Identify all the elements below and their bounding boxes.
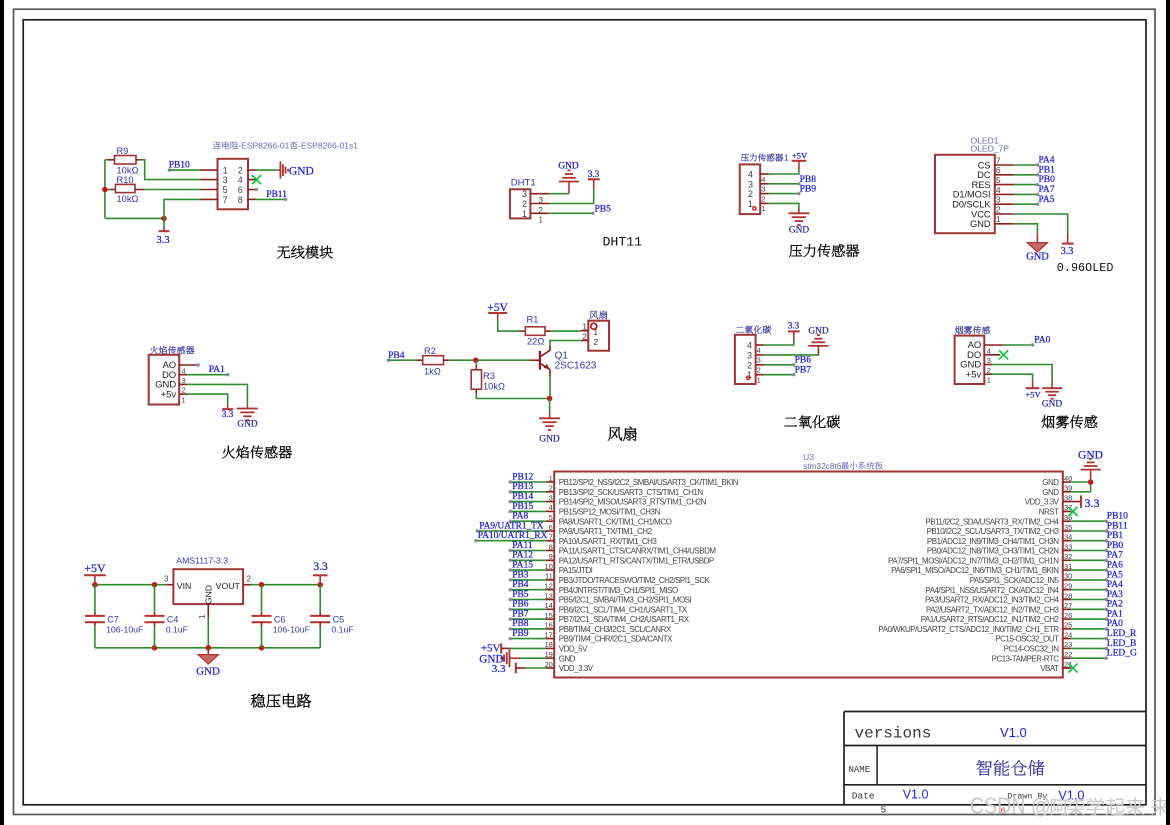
svg-text:PB11: PB11 xyxy=(266,190,287,200)
svg-text:3: 3 xyxy=(747,350,752,360)
pin +5v wire xyxy=(984,373,992,375)
svg-text:3.3: 3.3 xyxy=(222,410,234,420)
svg-text:2: 2 xyxy=(996,204,1001,214)
svg-text:GND: GND xyxy=(808,327,828,337)
wire VCC to 3.3 xyxy=(1014,214,1068,234)
wire net LED_B xyxy=(1071,647,1106,649)
svg-text:PA2: PA2 xyxy=(1107,600,1123,610)
svg-text:PA6/SPI1_MISO/ADC12_IN6/TIM3_C: PA6/SPI1_MISO/ADC12_IN6/TIM3_CH1/TIM1_BK… xyxy=(891,566,1059,575)
svg-text:R9: R9 xyxy=(117,146,129,156)
svg-text:1: 1 xyxy=(987,376,991,385)
svg-text:PB0/ADC12_IN8/TIM3_CH3/TIM1_CH: PB0/ADC12_IN8/TIM3_CH3/TIM1_CH2N xyxy=(927,547,1059,556)
svg-text:PB0: PB0 xyxy=(1107,541,1124,551)
svg-text:OLED_7P: OLED_7P xyxy=(971,144,1010,154)
ground GND wireless xyxy=(277,162,288,179)
svg-text:-ESP8266-01s1: -ESP8266-01s1 xyxy=(298,141,358,151)
wire pin3 PB8 xyxy=(769,183,799,185)
svg-text:PB6/I2C1_SCL/TIM4_CH1/USART1_T: PB6/I2C1_SCL/TIM4_CH1/USART1_TX xyxy=(559,605,688,614)
svg-text:PA15: PA15 xyxy=(512,561,533,571)
svg-text:PA3/USART2_RX/ADC12_IN3/TIM2_C: PA3/USART2_RX/ADC12_IN3/TIM2_CH4 xyxy=(925,596,1060,605)
wire +5V to pin4 xyxy=(769,170,799,175)
pin8 wire to PB11 xyxy=(248,198,256,200)
left black band xyxy=(0,0,4,825)
wire +5V to R1 xyxy=(498,320,520,332)
svg-text:4: 4 xyxy=(761,175,765,184)
wire bottom rail xyxy=(105,217,164,219)
wire net PB3 xyxy=(510,579,545,581)
svg-text:PA8: PA8 xyxy=(512,512,528,522)
wire top rail left xyxy=(95,584,167,586)
svg-text:VIN: VIN xyxy=(177,581,191,591)
svg-text:GND: GND xyxy=(204,585,214,604)
svg-text:C5: C5 xyxy=(333,614,345,624)
svg-text:PB5: PB5 xyxy=(512,590,529,600)
resistor R2 xyxy=(417,359,423,361)
svg-text:PA5: PA5 xyxy=(1107,570,1123,580)
svg-text:GND: GND xyxy=(1042,399,1062,409)
svg-text:GND: GND xyxy=(559,654,576,663)
svg-text:4: 4 xyxy=(757,346,761,355)
svg-text:D1/MOSI: D1/MOSI xyxy=(953,190,991,200)
svg-text:PC15-OSC32_OUT: PC15-OSC32_OUT xyxy=(995,635,1059,644)
wire net PA11 xyxy=(510,550,545,552)
svg-text:PB3/JTDO/TRACESWO/TIM2_CH2/SPI: PB3/JTDO/TRACESWO/TIM2_CH2/SPI1_SCK xyxy=(559,576,711,585)
svg-text:PA1/USART2_RTS/ADC12_IN1/TIM2_: PA1/USART2_RTS/ADC12_IN1/TIM2_CH2 xyxy=(921,615,1060,624)
svg-text:1: 1 xyxy=(522,209,527,219)
svg-text:10kΩ: 10kΩ xyxy=(117,194,139,204)
svg-text:PB9/TIM4_CHR/I2C1_SDA/CANTX: PB9/TIM4_CHR/I2C1_SDA/CANTX xyxy=(559,635,673,644)
svg-text:LED_R: LED_R xyxy=(1107,629,1137,639)
wire net PA12 xyxy=(510,559,545,561)
capacitor C7 xyxy=(94,585,96,613)
svg-text:VOUT: VOUT xyxy=(216,581,241,591)
svg-text:5: 5 xyxy=(881,805,887,816)
pin3 wire to GND xyxy=(549,193,569,195)
svg-text:PA7: PA7 xyxy=(1107,551,1123,561)
svg-text:D0/SCLK: D0/SCLK xyxy=(952,200,991,210)
svg-text:3: 3 xyxy=(164,575,169,584)
regulator GND pin down xyxy=(207,604,209,617)
svg-text:4: 4 xyxy=(238,175,243,185)
connector fan xyxy=(589,311,598,319)
wire net PB8 xyxy=(510,628,545,630)
title pressure sensor xyxy=(789,245,802,257)
connector flame sensor xyxy=(150,346,158,354)
svg-text:1: 1 xyxy=(784,153,789,163)
svg-text:PA11: PA11 xyxy=(512,541,533,551)
wire net PB13 xyxy=(510,491,545,493)
svg-text:PB1: PB1 xyxy=(1107,531,1124,541)
svg-text:R2: R2 xyxy=(424,346,436,356)
svg-text:PB3: PB3 xyxy=(512,570,529,580)
svg-text:10kΩ: 10kΩ xyxy=(117,165,139,175)
svg-text:GND: GND xyxy=(558,161,579,171)
wire net PB0 xyxy=(1071,550,1106,552)
wire pin4 to 3.3 xyxy=(764,339,794,346)
ground GND DHT xyxy=(559,170,579,193)
svg-text:+5v: +5v xyxy=(161,389,177,400)
svg-text:PA6: PA6 xyxy=(1107,561,1123,571)
wire R1 to fan pin1 xyxy=(551,330,581,332)
svg-text:PB6: PB6 xyxy=(795,355,812,365)
power 3.3 MCU pin20 xyxy=(515,663,517,674)
svg-text:1: 1 xyxy=(182,395,186,404)
wire net PA6 xyxy=(1071,569,1106,571)
wire pin2 PB6 xyxy=(764,364,794,366)
pin2 wire to GND xyxy=(248,169,256,171)
svg-text:PA4/SPI1_NSS/USART2_CK/ADC12_I: PA4/SPI1_NSS/USART2_CK/ADC12_IN4 xyxy=(925,586,1059,595)
wire net PB12 xyxy=(510,481,545,483)
svg-text:CS: CS xyxy=(978,160,991,170)
svg-text:6: 6 xyxy=(238,185,243,195)
svg-text:PB11/I2C2_SDA/USART3_RX/TIM2_C: PB11/I2C2_SDA/USART3_RX/TIM2_CH4 xyxy=(925,517,1059,526)
connector smoke sensor xyxy=(955,326,963,334)
svg-text:3.3: 3.3 xyxy=(1085,496,1100,510)
svg-text:PB1: PB1 xyxy=(1039,165,1056,175)
node junction R10-rail xyxy=(105,189,110,191)
wire pin1 to GND xyxy=(769,203,799,208)
wire net PA3 xyxy=(1071,599,1106,601)
svg-text:PB8: PB8 xyxy=(512,619,529,629)
svg-text:DHT1: DHT1 xyxy=(511,178,536,189)
wire R10 to pin5 xyxy=(135,189,144,191)
svg-text:1: 1 xyxy=(593,327,598,337)
wire VOUT rail right xyxy=(243,584,250,586)
power 3.3 wireless xyxy=(163,218,165,227)
svg-text:PA10/UATR1_RX: PA10/UATR1_RX xyxy=(478,531,548,541)
wire base from R2 xyxy=(531,359,540,361)
svg-text:RES: RES xyxy=(972,180,991,190)
svg-text:PA0: PA0 xyxy=(1034,336,1050,346)
svg-text:PA1: PA1 xyxy=(1107,610,1123,620)
svg-text:PA1: PA1 xyxy=(209,365,225,375)
svg-text:6: 6 xyxy=(996,165,1001,175)
svg-text:+5v: +5v xyxy=(966,369,982,380)
svg-text:+5V: +5V xyxy=(1025,390,1041,400)
wire R3 bottom to emitter net xyxy=(476,394,549,399)
wire junction to pin7 xyxy=(164,199,201,218)
svg-text:PB8/TIM4_CH3/I2C1_SCL/CANRX: PB8/TIM4_CH3/I2C1_SCL/CANRX xyxy=(559,625,672,634)
svg-text:4: 4 xyxy=(747,341,752,351)
resistor R3 vertical xyxy=(475,360,477,365)
svg-text:PA12/USART1_RTS/CANTX/TIM1_ETR: PA12/USART1_RTS/CANTX/TIM1_ETR/USBDP xyxy=(559,556,714,565)
svg-text:PA5/SPI1_SCK/ADC12_IN5: PA5/SPI1_SCK/ADC12_IN5 xyxy=(970,576,1060,585)
connector CO2 sensor xyxy=(736,327,744,333)
svg-text:GND: GND xyxy=(237,420,257,430)
wire net PA4 xyxy=(1071,589,1106,591)
ground GND fan xyxy=(539,414,560,431)
svg-text:3: 3 xyxy=(522,189,527,199)
ground GND pressure xyxy=(788,209,809,226)
svg-text:+5V: +5V xyxy=(84,561,106,575)
title smoke sensor xyxy=(1042,415,1055,428)
wire net PA0 xyxy=(1071,628,1106,630)
wire net PB7 xyxy=(510,618,545,620)
svg-text:PB5: PB5 xyxy=(595,204,612,214)
wire pin3 to GND xyxy=(764,351,819,355)
pin DO wire PA1 xyxy=(179,374,187,376)
wire R9 to pin3 xyxy=(136,159,140,161)
resistor R10 xyxy=(115,184,135,192)
svg-text:PB13/SPI2_SCK/USART3_CTS/TIM1_: PB13/SPI2_SCK/USART3_CTS/TIM1_CH1N xyxy=(559,488,704,497)
svg-text:NAME: NAME xyxy=(849,765,871,775)
svg-text:2: 2 xyxy=(757,366,761,375)
svg-text:PB1/ADC12_IN9/TIM3_CH4/TIM1_CH: PB1/ADC12_IN9/TIM3_CH4/TIM1_CH3N xyxy=(927,537,1059,546)
wire pin2 PB9 xyxy=(769,193,799,195)
svg-text:PB7: PB7 xyxy=(795,365,812,375)
wire net PA8 xyxy=(510,520,545,522)
svg-text:1: 1 xyxy=(761,204,765,213)
svg-text:2: 2 xyxy=(761,194,765,203)
svg-text:1kΩ: 1kΩ xyxy=(424,366,441,376)
svg-text:VDD_3.3V: VDD_3.3V xyxy=(1025,498,1060,507)
ground GND OLED triangle xyxy=(1027,233,1047,252)
resistor R1 xyxy=(520,330,526,332)
pin AO stub unconnected xyxy=(179,364,197,366)
svg-text:0.1uF: 0.1uF xyxy=(166,624,188,634)
svg-text:PC13-TAMPER-RTC: PC13-TAMPER-RTC xyxy=(992,654,1060,663)
svg-text:PB10: PB10 xyxy=(169,161,190,171)
wire net PA15 xyxy=(510,569,545,571)
power +5V MCU pin18 xyxy=(500,643,502,653)
svg-text:PB14/SPI2_MISO/USART3_RTS/TIM1: PB14/SPI2_MISO/USART3_RTS/TIM1_CH2N xyxy=(559,498,707,507)
wire net PB11 xyxy=(1071,530,1106,532)
wire net PB9 xyxy=(510,638,545,640)
svg-text:VBAT: VBAT xyxy=(1040,664,1059,673)
svg-text:PB0: PB0 xyxy=(1039,175,1056,185)
power +5V smoke xyxy=(1032,382,1034,388)
svg-text:PA9/USART1_TX/TIM1_CH2: PA9/USART1_TX/TIM1_CH2 xyxy=(559,527,653,536)
power 3.3 OLED xyxy=(1067,234,1069,244)
svg-text:3: 3 xyxy=(223,175,228,185)
svg-text:R1: R1 xyxy=(527,315,539,325)
svg-text:DHT11: DHT11 xyxy=(603,234,643,249)
svg-text:4: 4 xyxy=(748,170,753,180)
svg-text:GND: GND xyxy=(1078,450,1103,462)
svg-text:PB10/I2C2_SCL/USART3_TX/TIM2_C: PB10/I2C2_SCL/USART3_TX/TIM2_CH3 xyxy=(927,527,1060,536)
ground GND flame xyxy=(237,404,258,420)
svg-text:Date: Date xyxy=(852,791,875,802)
svg-text:GND: GND xyxy=(289,166,314,178)
pin DO no-connect xyxy=(984,354,1000,356)
svg-text:2: 2 xyxy=(247,575,252,584)
svg-text:PB10: PB10 xyxy=(1107,512,1128,522)
svg-text:1: 1 xyxy=(996,214,1001,224)
resistor R9 xyxy=(115,156,137,165)
pin AO wire PA0 xyxy=(984,344,1003,346)
svg-text:R3: R3 xyxy=(483,371,495,381)
svg-text:2: 2 xyxy=(582,331,587,341)
svg-text:3: 3 xyxy=(757,356,761,365)
svg-text:2SC1623: 2SC1623 xyxy=(555,361,597,372)
svg-text:PA7: PA7 xyxy=(1039,185,1055,195)
svg-text:PB15/SP12_MOSI/TIM1_CH3N: PB15/SP12_MOSI/TIM1_CH3N xyxy=(559,508,661,517)
svg-text:PB4/JNTRST/TIM3_CH1/SPI1_MISO: PB4/JNTRST/TIM3_CH1/SPI1_MISO xyxy=(559,586,678,595)
svg-text:GND: GND xyxy=(1042,488,1059,497)
svg-text:5: 5 xyxy=(223,185,228,195)
svg-text:PA5: PA5 xyxy=(1039,195,1055,205)
svg-text:4: 4 xyxy=(987,346,991,355)
svg-text:3.3: 3.3 xyxy=(788,322,800,332)
svg-text:PB9: PB9 xyxy=(800,185,817,195)
svg-text:V1.0: V1.0 xyxy=(1000,725,1027,740)
svg-text:0.1uF: 0.1uF xyxy=(331,624,353,634)
svg-text:PB14: PB14 xyxy=(512,492,533,502)
svg-text:1: 1 xyxy=(539,216,544,225)
svg-text:8: 8 xyxy=(238,195,243,205)
svg-text:CSDN @: CSDN @ xyxy=(970,793,1051,819)
svg-text:7: 7 xyxy=(223,195,228,205)
svg-text:106-10uF: 106-10uF xyxy=(106,624,143,634)
ground GND smoke xyxy=(1042,381,1062,399)
svg-text:GND: GND xyxy=(1026,252,1049,263)
svg-text:3.3: 3.3 xyxy=(1061,246,1074,257)
svg-text:PA3: PA3 xyxy=(1107,590,1123,600)
svg-text:GND: GND xyxy=(789,225,809,235)
wire PB4 to R2 xyxy=(389,359,417,361)
svg-text:1: 1 xyxy=(757,376,761,385)
wire net PA2 xyxy=(1071,608,1106,610)
svg-text:GND: GND xyxy=(1042,478,1059,487)
svg-text:PB7/I2C1_SDA/TIM4_CH2/USART1_R: PB7/I2C1_SDA/TIM4_CH2/USART1_RX xyxy=(559,615,690,624)
wire net PB14 xyxy=(510,501,545,503)
svg-text:PB5/I2C1_SMBAI/TIM3_CH2/SPI1_M: PB5/I2C1_SMBAI/TIM3_CH2/SPI1_MOSI xyxy=(559,596,692,605)
wire net PB1 xyxy=(1071,540,1106,542)
svg-text:5: 5 xyxy=(996,175,1001,185)
svg-text:AMS1117-3.3: AMS1117-3.3 xyxy=(176,555,228,565)
svg-text:+5V: +5V xyxy=(792,151,808,161)
pin GND wire xyxy=(179,383,187,385)
svg-text:PB8: PB8 xyxy=(800,175,817,185)
svg-text:2: 2 xyxy=(748,189,753,199)
connector pressure sensor 1 xyxy=(741,154,749,162)
power 3.3 CO2 xyxy=(793,332,795,339)
ground GND MCU pin19 xyxy=(501,649,512,667)
wire net PA7 xyxy=(1071,559,1106,561)
svg-text:PA4: PA4 xyxy=(1107,580,1123,590)
transistor Q1 xyxy=(549,346,551,351)
svg-text:7: 7 xyxy=(996,155,1001,165)
no-connect pin4 xyxy=(248,179,256,181)
svg-text:PB12/SPI2_NSS/I2C2_SMBAI/USART: PB12/SPI2_NSS/I2C2_SMBAI/USART3_CK/TIM1_… xyxy=(559,478,739,487)
power 3.3 MCU pin38 xyxy=(1071,501,1081,503)
svg-text:PA9/UATR1_TX: PA9/UATR1_TX xyxy=(479,521,544,531)
svg-text:PB15: PB15 xyxy=(512,502,533,512)
svg-text:stm32c8t6: stm32c8t6 xyxy=(803,461,842,471)
svg-text:PA11/USART1_CTS/CANRX/TIM1_CH4: PA11/USART1_CTS/CANRX/TIM1_CH4/USBDM xyxy=(559,547,717,556)
svg-text:2: 2 xyxy=(238,166,243,176)
wire net PB6 xyxy=(510,608,545,610)
wire fan pin2 to collector xyxy=(550,341,581,346)
wire net LED_G xyxy=(1071,657,1106,659)
wire net PA1 xyxy=(1071,618,1106,620)
svg-text:GND: GND xyxy=(196,666,220,678)
svg-text:C4: C4 xyxy=(167,614,179,624)
wire bottom rail xyxy=(95,647,320,649)
wire pin1 PB7 xyxy=(764,374,794,376)
svg-text:3: 3 xyxy=(996,195,1001,205)
svg-text:PA12: PA12 xyxy=(512,551,533,561)
svg-text:NRST: NRST xyxy=(1039,508,1059,517)
wire emitter down xyxy=(549,376,551,399)
svg-text:PA0: PA0 xyxy=(1107,619,1123,629)
no-connect VBAT pin21 xyxy=(1063,667,1069,669)
pin +5v wire to 3.3 xyxy=(179,393,187,395)
svg-text:C7: C7 xyxy=(107,614,119,624)
svg-text:1: 1 xyxy=(582,322,587,332)
wire net PB10 xyxy=(1071,520,1106,522)
connector P1 ESP8266 socket xyxy=(213,141,221,149)
title fan xyxy=(608,427,622,441)
svg-text:3.3: 3.3 xyxy=(156,235,169,246)
svg-text:PB6: PB6 xyxy=(512,600,529,610)
node junction emitter xyxy=(547,396,553,402)
wire net PB15 xyxy=(510,510,545,512)
right black band xyxy=(1166,0,1170,825)
svg-text:PA8/USART1_CK/TIM1_CH1/MCO: PA8/USART1_CK/TIM1_CH1/MCO xyxy=(559,517,672,526)
svg-text:10kΩ: 10kΩ xyxy=(483,381,505,391)
svg-text:GND: GND xyxy=(970,219,991,229)
svg-text:1: 1 xyxy=(748,199,753,209)
svg-text:VCC: VCC xyxy=(971,209,991,219)
svg-text:3.3: 3.3 xyxy=(492,663,506,675)
svg-text:PB7: PB7 xyxy=(512,610,529,620)
node junction base-R3 xyxy=(473,357,479,363)
ground GND regulator xyxy=(198,648,218,664)
power 3.3 flame xyxy=(227,405,229,409)
svg-text:versions: versions xyxy=(855,725,932,743)
no-connect NRST pin37 xyxy=(1063,510,1069,512)
wire net PB4 xyxy=(510,589,545,591)
wire pin1 to PB5 xyxy=(549,212,593,214)
svg-text:C6: C6 xyxy=(274,614,286,624)
wire left 3.3 rail xyxy=(104,160,106,219)
svg-text:22Ω: 22Ω xyxy=(527,336,544,346)
svg-text:PB4: PB4 xyxy=(512,580,529,590)
svg-text:PB11: PB11 xyxy=(1107,521,1128,531)
svg-text:2: 2 xyxy=(593,337,598,347)
svg-text:PB9: PB9 xyxy=(512,629,529,639)
capacitor C4 xyxy=(154,585,156,613)
svg-text:DC: DC xyxy=(977,170,991,180)
svg-text:2: 2 xyxy=(522,199,527,209)
wire net PA10/UATR1_RX xyxy=(476,540,546,542)
svg-text:PB13: PB13 xyxy=(512,482,533,492)
wires OLED data pins xyxy=(1014,164,1038,166)
svg-text:LED_B: LED_B xyxy=(1107,639,1137,649)
ground GND MCU top right xyxy=(1071,481,1090,483)
svg-text:PA15/JTDI: PA15/JTDI xyxy=(559,566,593,575)
title flame sensor xyxy=(222,446,235,459)
svg-text:PA4: PA4 xyxy=(1039,156,1055,166)
svg-text:LED_G: LED_G xyxy=(1107,649,1137,659)
svg-text:3: 3 xyxy=(748,179,753,189)
svg-text:PB4: PB4 xyxy=(388,351,405,361)
svg-text:VDD_5V: VDD_5V xyxy=(559,645,588,654)
title wireless module xyxy=(277,246,290,259)
ground GND CO2 xyxy=(808,335,828,355)
svg-text:106-10uF: 106-10uF xyxy=(273,624,310,634)
svg-text:1: 1 xyxy=(198,614,207,619)
title CO2 xyxy=(784,417,797,426)
node junction bottom xyxy=(161,216,167,222)
pin GND wire xyxy=(984,364,992,366)
svg-text:R10: R10 xyxy=(117,175,134,185)
svg-text:4: 4 xyxy=(996,185,1001,195)
svg-text:PA10/USART1_RX/TIM1_CH3: PA10/USART1_RX/TIM1_CH3 xyxy=(559,537,658,546)
svg-text:3: 3 xyxy=(761,185,765,194)
title block frame xyxy=(844,711,1146,713)
